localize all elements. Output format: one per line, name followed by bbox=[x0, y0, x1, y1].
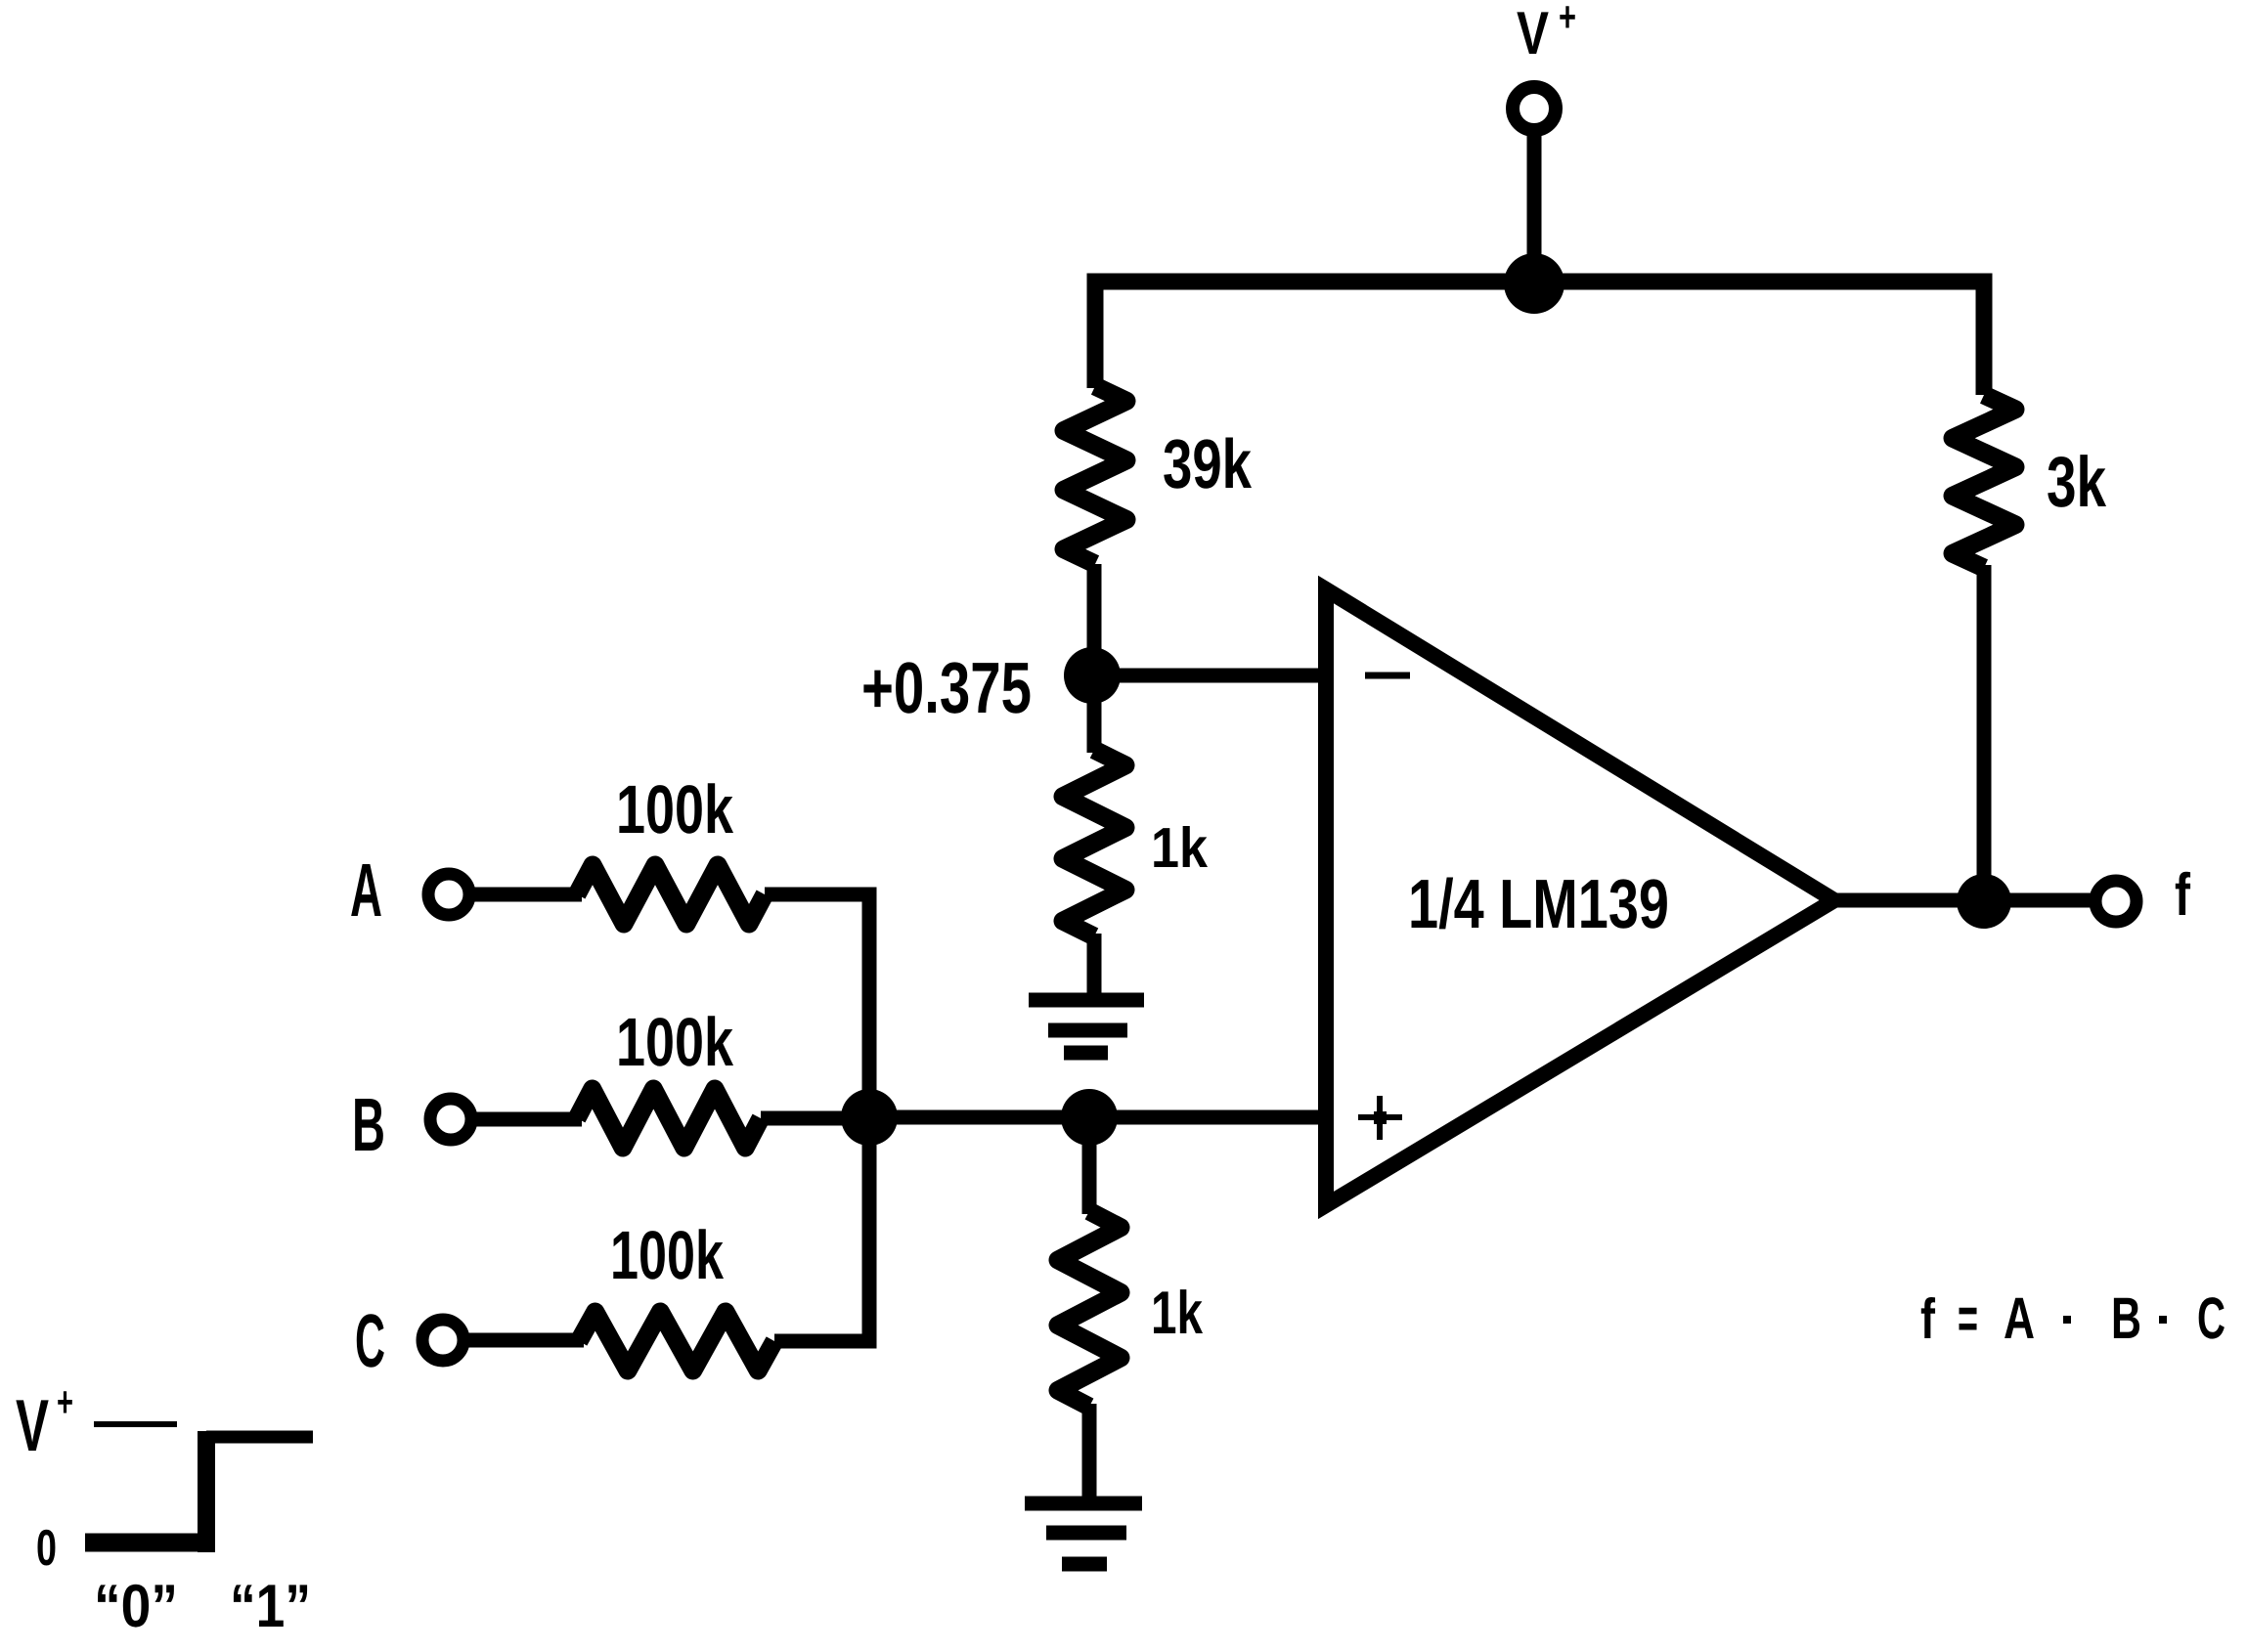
node +0.375 bbox=[1064, 647, 1121, 704]
wire 3k to output node bbox=[1977, 565, 1992, 901]
wire 100k C up to node B junction bbox=[774, 1117, 869, 1341]
input terminal B bbox=[430, 1099, 471, 1140]
wire node to 1k upper bbox=[1087, 670, 1102, 753]
resistor 100k (A) bbox=[577, 865, 765, 924]
wire B to 100k bbox=[474, 1112, 582, 1127]
noninverting input plus sign bbox=[1358, 1096, 1402, 1140]
wire node to 1k lower bbox=[1082, 1117, 1097, 1214]
ground upper bbox=[1029, 1000, 1144, 1053]
svg-text:f: f bbox=[1920, 1287, 1936, 1351]
svg-text:“0”: “0” bbox=[94, 1573, 178, 1640]
svg-text:1k: 1k bbox=[1151, 816, 1209, 880]
svg-text:V: V bbox=[1517, 0, 1549, 67]
wire 1k lower to ground bbox=[1082, 1404, 1097, 1503]
node B junction bbox=[841, 1089, 898, 1146]
svg-text:A: A bbox=[350, 848, 382, 933]
legend step waveform 0 to 1 bbox=[85, 1534, 215, 1552]
svg-text:B: B bbox=[2111, 1285, 2141, 1351]
svg-text:39k: 39k bbox=[1163, 426, 1252, 503]
svg-text:A: A bbox=[2004, 1285, 2035, 1351]
svg-text:100k: 100k bbox=[610, 1217, 724, 1293]
wire 100k B to node bbox=[761, 1111, 880, 1126]
V+ supply terminal bbox=[1513, 87, 1556, 130]
wire V+ terminal to top rail bbox=[1527, 133, 1542, 283]
legend V+ level line bbox=[94, 1421, 177, 1427]
svg-text:=: = bbox=[1958, 1285, 1978, 1351]
node noninverting input bbox=[1061, 1089, 1118, 1146]
svg-text:+: + bbox=[57, 1378, 73, 1426]
svg-text:“1”: “1” bbox=[230, 1573, 311, 1640]
input terminal A bbox=[428, 874, 469, 915]
wire top rail bbox=[1095, 282, 1984, 395]
resistor 39k bbox=[1064, 386, 1126, 564]
svg-text:100k: 100k bbox=[616, 1004, 733, 1080]
resistor 1k lower bbox=[1058, 1211, 1121, 1407]
svg-text:+: + bbox=[1559, 0, 1576, 41]
svg-text:V: V bbox=[16, 1384, 49, 1466]
svg-text:1k: 1k bbox=[1151, 1280, 1203, 1347]
node output junction bbox=[1957, 874, 2011, 929]
wire A to 100k bbox=[472, 888, 582, 902]
svg-text:100k: 100k bbox=[616, 771, 733, 848]
svg-text:B: B bbox=[352, 1083, 385, 1167]
svg-text:+0.375: +0.375 bbox=[861, 647, 1032, 728]
wire C to 100k bbox=[466, 1333, 584, 1348]
ground lower bbox=[1025, 1503, 1142, 1564]
resistor 1k upper bbox=[1063, 750, 1125, 936]
wire 100k A to junction column bbox=[765, 894, 869, 1117]
wire node to noninverting input bbox=[1089, 1110, 1334, 1125]
svg-text:f: f bbox=[2175, 861, 2191, 928]
svg-text:C: C bbox=[2197, 1285, 2225, 1351]
resistor 3k bbox=[1953, 395, 2015, 568]
node V+ junction bbox=[1504, 253, 1564, 314]
svg-text:1/4 LM139: 1/4 LM139 bbox=[1408, 866, 1669, 943]
svg-text:C: C bbox=[355, 1299, 385, 1383]
input terminal C bbox=[422, 1320, 463, 1361]
wire 39k to node +0.375 bbox=[1087, 564, 1102, 684]
op-amp comparator 1/4 LM139 bbox=[1326, 589, 1834, 1205]
output terminal f bbox=[2095, 881, 2137, 922]
wire comparator output bbox=[1834, 893, 2094, 908]
svg-text:3k: 3k bbox=[2047, 443, 2106, 522]
inverting input minus sign bbox=[1365, 673, 1410, 679]
resistor 100k (B) bbox=[577, 1089, 761, 1148]
wire node to inverting input bbox=[1092, 669, 1334, 683]
svg-text:0: 0 bbox=[36, 1520, 57, 1577]
wire node B junction to noninverting node bbox=[869, 1110, 1089, 1125]
resistor 100k (C) bbox=[579, 1312, 774, 1370]
wire 1k upper to ground bbox=[1087, 934, 1102, 1000]
